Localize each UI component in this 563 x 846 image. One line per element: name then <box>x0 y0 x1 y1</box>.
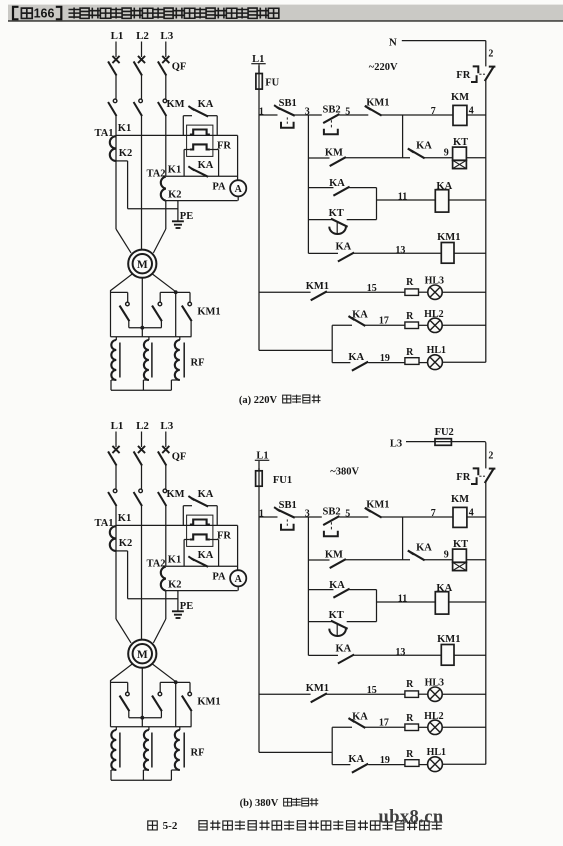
svg-text:HL1: HL1 <box>427 345 446 356</box>
svg-text:PA: PA <box>212 181 226 192</box>
svg-text:17: 17 <box>379 315 389 326</box>
svg-text:FR: FR <box>456 70 470 81</box>
svg-text:TA2: TA2 <box>146 168 165 179</box>
svg-text:KA: KA <box>348 352 364 363</box>
svg-text:FU: FU <box>265 78 279 89</box>
svg-text:R: R <box>406 347 414 358</box>
svg-text:KA: KA <box>436 181 452 192</box>
svg-text:7: 7 <box>431 106 436 117</box>
svg-text:HL3: HL3 <box>425 275 444 286</box>
svg-text:FU1: FU1 <box>273 475 292 486</box>
svg-text:TA1: TA1 <box>94 128 113 139</box>
svg-text:KA: KA <box>198 99 214 110</box>
svg-text:A: A <box>235 184 243 195</box>
svg-text:R: R <box>406 311 414 322</box>
svg-text:166: 166 <box>34 7 55 21</box>
svg-text:HL2: HL2 <box>424 309 443 320</box>
svg-text:3: 3 <box>305 107 310 118</box>
svg-text:11: 11 <box>398 191 407 202</box>
svg-text:4: 4 <box>469 105 474 116</box>
svg-text:KM1: KM1 <box>197 307 220 318</box>
svg-text:5: 5 <box>345 106 350 117</box>
svg-text:KA: KA <box>352 310 368 321</box>
svg-text:PE: PE <box>180 211 193 222</box>
svg-text:ubx8.cn: ubx8.cn <box>379 808 444 828</box>
svg-text:KA: KA <box>416 140 432 151</box>
svg-text:K1: K1 <box>168 164 181 175</box>
svg-text:KM1: KM1 <box>306 281 329 292</box>
svg-text:L3: L3 <box>160 30 173 42</box>
svg-text:KM1: KM1 <box>437 232 460 243</box>
svg-text:L3: L3 <box>390 438 402 449</box>
svg-text:KA: KA <box>198 160 214 171</box>
svg-text:FR: FR <box>217 140 231 151</box>
svg-text:K2: K2 <box>168 190 181 201</box>
svg-text:L1: L1 <box>111 30 124 42</box>
svg-text:(b) 380V: (b) 380V <box>240 798 279 809</box>
svg-text:19: 19 <box>380 353 390 364</box>
svg-text:13: 13 <box>395 245 405 256</box>
svg-text:M: M <box>137 259 148 271</box>
svg-text:FU2: FU2 <box>435 427 454 438</box>
svg-text:K2: K2 <box>119 148 132 159</box>
svg-text:QF: QF <box>172 62 187 73</box>
svg-text:9: 9 <box>444 147 449 158</box>
svg-text:RF: RF <box>191 357 205 368</box>
svg-text:KM: KM <box>325 148 343 159</box>
svg-text:KA: KA <box>329 178 345 189</box>
svg-text:KM1: KM1 <box>366 98 389 109</box>
svg-text:K1: K1 <box>118 123 131 134</box>
svg-text:KA: KA <box>336 242 352 253</box>
svg-text:KM: KM <box>166 99 184 110</box>
svg-text:R: R <box>406 277 414 288</box>
svg-text:15: 15 <box>367 283 377 294</box>
svg-text:N: N <box>389 37 397 49</box>
svg-text:SB1: SB1 <box>279 98 297 109</box>
svg-text:~380V: ~380V <box>330 467 359 478</box>
svg-text:KT: KT <box>453 137 468 148</box>
svg-text:2: 2 <box>488 48 493 59</box>
svg-text:KT: KT <box>329 208 344 219</box>
svg-text:5-2: 5-2 <box>163 820 178 832</box>
svg-text:L1: L1 <box>256 450 268 461</box>
svg-text:L2: L2 <box>136 30 149 42</box>
svg-text:~220V: ~220V <box>369 62 398 73</box>
svg-text:(a) 220V: (a) 220V <box>239 395 278 406</box>
svg-text:SB2: SB2 <box>323 105 341 116</box>
svg-text:1: 1 <box>259 106 264 117</box>
svg-text:KM: KM <box>451 92 469 103</box>
